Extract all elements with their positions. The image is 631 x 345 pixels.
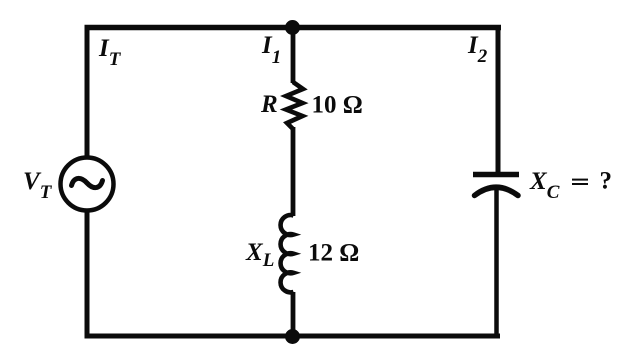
svg-text:R: R (260, 91, 278, 118)
wire: left rail lower segment (85, 211, 90, 338)
node: bottom junction (285, 329, 300, 344)
svg-text:IT: IT (98, 35, 122, 70)
svg-text:I1: I1 (261, 32, 281, 68)
svg-text:I2: I2 (467, 32, 488, 67)
svg-text:10 Ω: 10 Ω (312, 92, 363, 119)
svg-text:XL: XL (245, 239, 274, 271)
inductor X_L: coil of 4 loops (281, 215, 294, 292)
wire: middle branch between resistor and inductor (291, 127, 296, 216)
source V_T: AC source circle (61, 158, 114, 211)
capacitor X_C: top plate (473, 172, 519, 178)
wire: right rail lower segment (494, 190, 499, 338)
wire: middle branch top (node to resistor) (291, 27, 296, 83)
capacitor X_C: curved bottom plate (475, 187, 519, 195)
wire: middle branch bottom (inductor to node) (291, 292, 296, 336)
source V_T: sine symbol (72, 178, 103, 187)
wire: left rail upper segment (85, 25, 90, 158)
resistor R: zigzag (286, 82, 303, 129)
wire: bottom rail (85, 334, 501, 339)
svg-text:12 Ω: 12 Ω (308, 240, 359, 267)
svg-text:VT: VT (23, 168, 53, 203)
label equals sign (572, 179, 588, 181)
svg-text:?: ? (600, 168, 613, 195)
wire: right rail upper segment (496, 25, 501, 172)
svg-text:XC: XC (529, 168, 560, 203)
wire: top rail (85, 25, 502, 31)
node: top junction (285, 20, 300, 35)
